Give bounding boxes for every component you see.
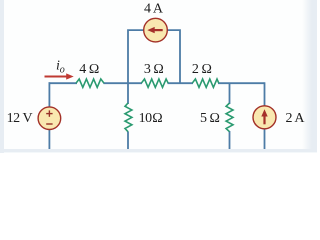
voltage source 12V — [38, 107, 61, 130]
wire 4A source loop — [128, 30, 180, 83]
wire 5ohm top stub — [229, 83, 231, 104]
wire 5ohm bottom stub — [229, 131, 231, 149]
svg-text:4 A: 4 A — [144, 1, 164, 16]
wire 4ohm to node A — [104, 82, 143, 84]
svg-text:2 A: 2 A — [286, 111, 306, 126]
wire node C to top-right corner — [218, 82, 265, 84]
wire node B segment — [168, 82, 194, 84]
svg-text:io: io — [56, 59, 65, 76]
current source 2A — [253, 106, 276, 129]
svg-text:10Ω: 10Ω — [139, 111, 163, 126]
wire 10ohm top stub — [127, 83, 129, 104]
resistor 10 ohm (vertical) — [125, 103, 132, 132]
resistor 4 ohm — [76, 79, 104, 87]
svg-text:2 Ω: 2 Ω — [192, 62, 212, 77]
wire 2A branch vertical — [264, 82, 266, 149]
current source 4A — [144, 18, 168, 42]
wire 12V branch vertical — [48, 82, 50, 149]
wire top-left horizontal — [49, 82, 78, 84]
current arrow i_o — [45, 73, 74, 79]
svg-text:3 Ω: 3 Ω — [144, 62, 164, 77]
svg-text:5 Ω: 5 Ω — [200, 111, 220, 126]
svg-text:4 Ω: 4 Ω — [79, 62, 99, 77]
svg-text:12 V: 12 V — [7, 111, 33, 126]
resistor 2 ohm — [192, 79, 219, 87]
resistor 5 ohm (vertical) — [226, 103, 233, 132]
wire 10ohm bottom stub — [127, 132, 129, 150]
resistor 3 ohm — [141, 79, 168, 87]
